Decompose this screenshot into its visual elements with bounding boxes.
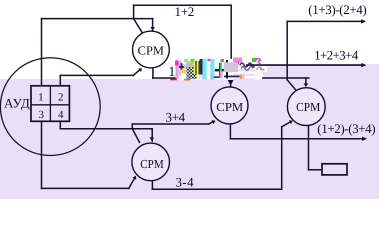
CPM labels bbox=[138, 43, 321, 171]
svg-text:1+2: 1+2 bbox=[175, 4, 195, 19]
arrow into CPM2 lower-left bbox=[212, 120, 216, 124]
wire diagonal arrow into CPM3 lower-left bbox=[129, 179, 134, 189]
wire arrow stub into CPM-R top bbox=[305, 78, 307, 84]
arrow into CPM3 lower-left bbox=[132, 176, 136, 180]
svg-text:СРМ: СРМ bbox=[140, 157, 164, 171]
svg-text:СРМ: СРМ bbox=[296, 100, 320, 114]
wire 1+2 corner vertical bbox=[133, 5, 135, 18]
svg-text:СРМ: СРМ bbox=[216, 100, 243, 114]
wire cell3 bottom horizontal bbox=[42, 187, 129, 189]
arrow into CPM1 lower-left bbox=[138, 68, 142, 72]
wire CPM3 output vertical bbox=[151, 181, 153, 190]
wire CPM2 arrow stub below noise bbox=[230, 85, 232, 87]
arrow into CPM2 top bbox=[228, 80, 234, 86]
table digits bbox=[38, 91, 64, 121]
wire cell1 vertical bbox=[41, 19, 43, 86]
wire (1+3)-(2+4) vertical down bbox=[286, 21, 288, 79]
wire arrow stub into CPM1 top bbox=[152, 19, 154, 31]
arrow into CPM-R top bbox=[304, 83, 309, 87]
wire 3-4 bottom horizontal bbox=[152, 188, 281, 190]
signal labels bbox=[166, 2, 376, 189]
svg-text:(1+3)-(2+4): (1+3)-(2+4) bbox=[308, 2, 366, 17]
arrow tip (1+3)-(2+4) bbox=[361, 19, 366, 23]
wires drawn over noise bbox=[231, 65, 362, 87]
svg-text:1: 1 bbox=[168, 65, 175, 80]
wire cell4 vertical bbox=[59, 121, 61, 128]
table АУД 2x2 bbox=[31, 86, 69, 122]
wire CPM-R bottom vertical bbox=[308, 125, 310, 169]
arrow into CPM1 top bbox=[150, 27, 155, 31]
svg-text:2: 2 bbox=[58, 91, 64, 103]
svg-text:3-4: 3-4 bbox=[176, 174, 195, 189]
wire diagonal arrow into CPM1 lower-left bbox=[133, 69, 140, 75]
wire 3+4 horizontal bbox=[132, 123, 208, 125]
wire 3-4 riser vertical bbox=[281, 127, 283, 190]
lavender background right bbox=[262, 64, 379, 199]
wire 1+2+3+4 horizontal bbox=[246, 64, 362, 66]
arrow into CPM-R lower-left bbox=[289, 120, 293, 124]
svg-text:АУД: АУД bbox=[4, 96, 30, 111]
svg-text:3: 3 bbox=[38, 109, 44, 121]
svg-text:3+4: 3+4 bbox=[166, 110, 186, 125]
svg-text:1+2+3+4: 1+2+3+4 bbox=[314, 47, 359, 62]
wire vertical to CPM2 top (upper part) bbox=[230, 5, 232, 59]
arrow tip 1+2+3+4 bbox=[361, 63, 366, 67]
svg-text:СРМ: СРМ bbox=[138, 43, 164, 57]
op circles bbox=[132, 31, 325, 181]
wire cell2 vertical bbox=[59, 75, 61, 86]
wire cell1 horizontal y18.6 bbox=[42, 18, 153, 20]
wire CPM1 output vertical bbox=[152, 68, 154, 79]
load box rectangle bbox=[322, 164, 347, 175]
wire diagonal into CPM1 top-left bbox=[134, 19, 143, 34]
wire CPM2 bottom output vertical bbox=[229, 124, 231, 139]
arrow into CPM3 top bbox=[150, 137, 155, 141]
wire 3+4 diagonal arrow into CPM2 lower-left bbox=[209, 122, 213, 124]
CPM2 circle bbox=[211, 87, 248, 124]
CPM3 circle bbox=[132, 143, 170, 181]
wire cell2 horizontal bbox=[60, 74, 133, 76]
CPM1 circle bbox=[133, 31, 170, 68]
wire stub to load box bbox=[309, 169, 323, 171]
wire cell3 vertical long bbox=[41, 121, 43, 188]
svg-text:4: 4 bbox=[58, 109, 64, 121]
svg-text:(1+2)-(3+4): (1+2)-(3+4) bbox=[317, 121, 375, 136]
arrow tip (1+2)-(3+4) bbox=[362, 137, 367, 141]
wire diagonal arrow into CPM-R lower-left bbox=[282, 122, 291, 127]
wire (1+2)-(3+4) horizontal bbox=[230, 138, 362, 140]
arrowheads bbox=[132, 19, 367, 180]
wire CPM1 output horizontal y78 bbox=[153, 77, 309, 79]
wire arrow stub into CPM3 top bbox=[151, 129, 153, 142]
wire (1+3)-(2+4) horizontal bbox=[287, 20, 361, 22]
wire 3+4 corner vertical bbox=[131, 124, 133, 129]
wire cell4 horizontal bbox=[60, 128, 152, 130]
CPM-R circle bbox=[287, 88, 325, 126]
wire diagonal into CPM3 top-left bbox=[132, 129, 139, 143]
svg-text:1: 1 bbox=[38, 91, 44, 103]
lavender background left/bottom bbox=[0, 79, 262, 199]
wire diagonal into CPM-R top bbox=[287, 80, 296, 91]
wire 1+2 horizontal top bbox=[134, 4, 232, 6]
big circle АУД bbox=[0, 58, 100, 156]
